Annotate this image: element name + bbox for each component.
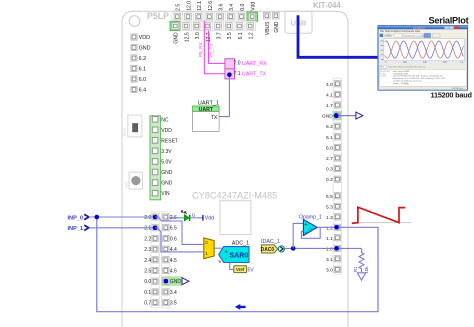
svg-text:UART_RX: UART_RX <box>242 61 267 67</box>
svg-text:3.3V: 3.3V <box>161 149 172 155</box>
top header pin 3.7 (row2 col5) <box>213 21 224 39</box>
svg-text:1.2: 1.2 <box>249 32 255 39</box>
terminal INP_0 <box>68 214 89 221</box>
wire P5_TX (magenta) <box>209 31 225 64</box>
GND row green highlight <box>162 276 183 285</box>
svg-text:2.0: 2.0 <box>144 215 151 221</box>
svg-text:[ info ]: [ info ] <box>381 76 387 78</box>
header pin 2.5 (left col) <box>144 267 158 274</box>
svg-text:3.1: 3.1 <box>326 257 333 263</box>
wire pin 2.0 to mux in0 <box>155 217 204 244</box>
right header pin 3.0 <box>326 266 341 273</box>
svg-text:6.1: 6.1 <box>326 135 333 141</box>
svg-text:3.0: 3.0 <box>195 32 201 39</box>
terminal INP_1 <box>68 225 89 232</box>
svg-text:-: - <box>225 256 227 262</box>
svg-text:GND: GND <box>161 170 173 176</box>
header pin 2.6 (right col) <box>163 214 177 221</box>
signal direction arrow (left) <box>235 304 246 310</box>
wire pin 2.6 to LED <box>169 217 185 219</box>
wire right GND <box>337 115 356 117</box>
svg-text:File Help Graphics Commands: File Help Graphics Commands View <box>380 30 420 33</box>
opamp feedback wire <box>301 227 320 238</box>
strip pin RESET <box>152 138 178 145</box>
svg-text:6.2: 6.2 <box>139 56 147 62</box>
sawtooth baseline <box>352 222 412 224</box>
push button SW <box>124 172 142 189</box>
svg-text:P5_TX: P5_TX <box>209 43 214 57</box>
svg-text:1.2: 1.2 <box>326 225 333 231</box>
pin GND (top single) <box>273 12 281 32</box>
op-amp U0 <box>303 219 317 235</box>
junction right GND pin <box>334 113 339 118</box>
svg-text:5.3: 5.3 <box>326 204 333 210</box>
svg-text:Vdd: Vdd <box>205 216 214 222</box>
svg-text:VDD: VDD <box>139 35 150 41</box>
header pin 0.7 (left col) <box>144 300 158 307</box>
right header column outline <box>333 78 341 274</box>
svg-text:6.1: 6.1 <box>139 67 147 73</box>
top header pin Vdd (row1 col8) <box>247 2 258 22</box>
svg-text:2.3: 2.3 <box>144 247 151 253</box>
right header pin 0.3 <box>326 166 341 173</box>
svg-text:S05: S05 <box>124 182 128 188</box>
UART_1 component <box>193 101 220 132</box>
svg-text:2.4: 2.4 <box>144 258 151 264</box>
svg-text:NC: NC <box>161 117 169 123</box>
header pin 0.1 (left col) <box>144 289 158 296</box>
junction pin 1.2 <box>334 225 339 230</box>
header column outlines <box>151 212 159 308</box>
svg-text:GND: GND <box>274 21 280 33</box>
strip pin VDD <box>152 127 172 134</box>
wire DAC node to opamp plus <box>293 223 303 248</box>
strip pin NC <box>152 117 169 124</box>
svg-text:SAR0: SAR0 <box>229 251 248 260</box>
svg-text:1: 1 <box>205 251 208 257</box>
wire SAR0 vminus to Vref <box>230 263 234 270</box>
header pin 2.2 (left col) <box>144 235 158 242</box>
svg-text:0.0: 0.0 <box>240 4 246 11</box>
svg-text:12.5: 12.5 <box>184 32 190 42</box>
wire opamp out to pin 1.2 <box>317 226 336 228</box>
svg-text:5V: 5V <box>248 267 255 273</box>
svg-text:0.3: 0.3 <box>326 167 333 173</box>
right header pin 6.1 <box>326 134 341 141</box>
svg-text:0.0: 0.0 <box>144 279 151 285</box>
right header pin 4.0 <box>326 81 341 88</box>
header pin 3.4 (right col) <box>163 289 177 296</box>
svg-text:6.0: 6.0 <box>326 145 333 151</box>
right header pin 1.1 <box>326 235 341 242</box>
svg-text:3.4: 3.4 <box>170 290 177 296</box>
svg-text:6.0: 6.0 <box>139 77 147 83</box>
svg-text:0: 0 <box>205 240 208 246</box>
header pin 2.1 (left col) <box>144 225 158 232</box>
left pin GND <box>131 44 151 51</box>
strip pin GND <box>152 169 173 176</box>
svg-text:INP_0: INP_0 <box>68 215 84 221</box>
right GND row green highlight <box>333 111 343 120</box>
pin VBUS (top single) <box>264 12 272 35</box>
header pin 0.6 (right col) <box>163 235 177 242</box>
top header pin 12.1 (row1 col3) <box>193 1 204 22</box>
svg-text:Vref: Vref <box>236 267 245 272</box>
DAC0 output terminal <box>278 246 284 252</box>
svg-text:UART_TX: UART_TX <box>242 71 267 77</box>
svg-text:3.5: 3.5 <box>227 32 233 39</box>
svg-text:KIT-044: KIT-044 <box>313 1 341 10</box>
svg-text:GND: GND <box>161 181 173 187</box>
svg-text:GND: GND <box>170 279 182 285</box>
right header pin 2.7 <box>326 155 341 162</box>
svg-text:3.6: 3.6 <box>219 4 225 11</box>
header pin 4.4 (right col) <box>163 246 177 253</box>
wire LED to Vdd <box>190 217 203 219</box>
svg-text:VIN: VIN <box>161 191 170 197</box>
header pin 3.5 (right col) <box>163 300 177 307</box>
right header pin 1.0 <box>326 245 341 252</box>
top header pin 12.7 (row2 col4) <box>202 21 213 42</box>
svg-text:P5LP: P5LP <box>147 11 169 21</box>
right header pin 6.2 <box>326 123 341 130</box>
junction pin 2.1 <box>153 226 158 231</box>
svg-text:1.1: 1.1 <box>326 236 333 242</box>
svg-text:GND: GND <box>139 46 151 52</box>
svg-text:INP_1: INP_1 <box>68 226 84 232</box>
reset switch SW <box>123 115 142 137</box>
right header pin 4.1 <box>326 91 341 98</box>
USB connector <box>285 11 312 33</box>
svg-text:CY8C4247AZI-M485: CY8C4247AZI-M485 <box>192 191 277 201</box>
header pin 2.0 (left col) <box>144 214 158 221</box>
svg-text:4.1: 4.1 <box>326 92 333 98</box>
wire INP_0 to pin 2.0 <box>89 216 155 218</box>
svg-text:1.0: 1.0 <box>326 246 333 252</box>
sawtooth waveform (red) <box>352 207 406 223</box>
LED D1 green <box>181 211 190 221</box>
off-sheet connector GND (right) <box>356 112 363 119</box>
wire P5_RX (magenta) <box>204 21 225 74</box>
DAC0 component <box>261 245 278 253</box>
UART pin box 7.0/7.1 <box>225 59 235 79</box>
svg-text:6.1: 6.1 <box>238 32 244 39</box>
top header pin 1.2 (row2 col8) <box>245 21 256 39</box>
header pin 2.3 (left col) <box>144 246 158 253</box>
junction pin 1.0 <box>334 246 339 251</box>
svg-text:2.7: 2.7 <box>326 156 333 162</box>
svg-text:3.4: 3.4 <box>229 4 235 11</box>
svg-text:ADC_1: ADC_1 <box>232 241 249 247</box>
top header pin 12.6 (row1 col4) <box>204 1 215 22</box>
svg-text:4.6: 4.6 <box>170 269 177 275</box>
header pin 2.4 (left col) <box>144 257 158 264</box>
junction DAC node <box>291 246 296 251</box>
svg-text:U0: U0 <box>308 226 314 231</box>
power header strip <box>150 116 161 200</box>
svg-text:7.1: 7.1 <box>234 71 241 77</box>
svg-text:6.4: 6.4 <box>139 88 147 94</box>
board outline KIT-044 <box>122 11 348 327</box>
svg-text:1.3: 1.3 <box>326 215 333 221</box>
svg-text:5.5: 5.5 <box>326 194 333 200</box>
svg-text:12.1: 12.1 <box>197 1 203 11</box>
resistor R1 10k <box>353 248 369 273</box>
left pin 6.0 <box>131 76 146 83</box>
top header pin 3.4 (row1 col6) <box>226 4 237 22</box>
svg-text:0.7: 0.7 <box>144 301 151 307</box>
Vref box <box>234 266 247 273</box>
junction on pin 7.1 <box>227 72 232 77</box>
top header pin GND (row2 col1) <box>170 21 181 43</box>
right header pin GND <box>322 113 341 120</box>
svg-text:2.5: 2.5 <box>144 269 151 275</box>
svg-text:6.5: 6.5 <box>170 226 177 232</box>
svg-text:R1: R1 <box>353 266 358 272</box>
right header pin 1.3 <box>326 214 341 221</box>
svg-text:4.5: 4.5 <box>170 258 177 264</box>
header pin 0.0 (left col) <box>144 278 158 285</box>
svg-text:GND: GND <box>174 32 180 44</box>
top header pin 3.0 (row2 col3) <box>191 21 202 39</box>
strip pin 3.3V <box>152 148 172 155</box>
header pin 6.5 (right col) <box>163 225 177 232</box>
svg-text:Vdd: Vdd <box>251 2 257 11</box>
wire DAC0 to R1 (net VDAC) <box>285 247 362 249</box>
svg-text:3.0: 3.0 <box>326 267 333 273</box>
right header pin 1.2 <box>326 224 341 231</box>
SerialPlot window screenshot <box>378 26 468 90</box>
svg-text:RESET: RESET <box>161 138 178 144</box>
top header pin 3.5 (row2 col6) <box>224 21 235 39</box>
junction INP_0 loop <box>95 215 100 220</box>
svg-text:+: + <box>304 222 307 228</box>
svg-text:12.6: 12.6 <box>208 1 214 11</box>
top header pin 3.6 (row1 col5) <box>215 4 226 22</box>
USB link wire (thick) <box>298 15 378 57</box>
svg-text:3.5: 3.5 <box>170 301 177 307</box>
right header pin 6.0 <box>326 144 341 151</box>
top header pin 6.1 (row2 col7) <box>234 21 245 39</box>
svg-text:12.0: 12.0 <box>186 1 192 11</box>
svg-text:Com Port Plot Commands R: Com Port Plot Commands Record Log <box>388 66 426 69</box>
wire pin 2.1 to mux in1 <box>155 228 204 252</box>
left pin 6.2 <box>131 55 146 62</box>
svg-text:IDAC_1: IDAC_1 <box>261 239 280 245</box>
left pin VDD <box>131 34 150 41</box>
ground (analog) <box>357 273 365 280</box>
svg-text:VDD: VDD <box>161 128 172 134</box>
SAR0 ADC pentagon <box>217 247 249 265</box>
svg-text:4.0: 4.0 <box>326 82 333 88</box>
right header pin 5.5 <box>326 193 341 200</box>
junction pin 2.0 <box>153 215 158 220</box>
right header pin 5.3 <box>326 203 341 210</box>
svg-text:Opamp_1: Opamp_1 <box>299 214 322 220</box>
mounting hole <box>129 16 140 27</box>
svg-text:115200 baud: 115200 baud <box>431 91 472 100</box>
svg-text:3.7: 3.7 <box>217 32 223 39</box>
power terminal Vdd <box>203 215 214 222</box>
strip pin 5.0V <box>152 159 172 166</box>
svg-text:GND: GND <box>322 114 333 120</box>
left pin 6.4 <box>131 86 146 93</box>
top header pin 0.0 (row1 col7) <box>236 4 247 22</box>
header pin 4.5 (right col) <box>163 257 177 264</box>
svg-text:TX: TX <box>211 115 218 121</box>
header pin 4.6 (right col) <box>163 267 177 274</box>
right header pin 0.2 <box>326 176 341 183</box>
svg-text:2.1: 2.1 <box>144 226 151 232</box>
svg-text:SerialPlot: SerialPlot <box>429 16 469 26</box>
svg-text:+: + <box>225 249 228 255</box>
svg-text:7.0: 7.0 <box>234 60 241 66</box>
svg-text:6.2: 6.2 <box>326 124 333 130</box>
top header pin 2.5 (row1 col1) <box>172 4 183 22</box>
svg-text:1.7: 1.7 <box>326 103 333 109</box>
header pin GND (right col) <box>163 278 182 285</box>
svg-text:0.6: 0.6 <box>170 236 177 242</box>
svg-text:0.2: 0.2 <box>326 177 333 183</box>
svg-text:0.1: 0.1 <box>144 290 151 296</box>
svg-text:Plot: Plot <box>380 66 384 69</box>
top header pin 12.5 (row2 col2) <box>181 21 192 42</box>
svg-text:2.2: 2.2 <box>144 236 151 242</box>
junction bottom GND pin <box>164 279 169 284</box>
wire INP_1 to pin 2.1 <box>89 227 155 229</box>
svg-text:5.0V: 5.0V <box>161 160 172 166</box>
wire mux out to SAR0 <box>214 247 223 249</box>
svg-text:2.5: 2.5 <box>176 4 182 11</box>
strip pin GND <box>152 180 173 187</box>
right header pin 3.1 <box>326 256 341 263</box>
wire UART TX to pin 7.1 <box>219 75 229 117</box>
svg-text:P5_RX: P5_RX <box>198 42 203 57</box>
svg-text:VBUS: VBUS <box>265 21 271 35</box>
svg-text:RST1: RST1 <box>123 127 127 136</box>
left pin 6.1 <box>131 65 146 72</box>
svg-text:DAC0: DAC0 <box>261 247 275 253</box>
MCU chip outline <box>220 201 251 235</box>
right header pin 1.7 <box>326 102 341 109</box>
analog mux AMux <box>204 238 214 259</box>
off-sheet connector GND (bottom) <box>182 278 189 285</box>
feedback loop wire (opamp out to INP_0) <box>97 217 378 312</box>
strip pin VIN <box>152 190 170 197</box>
svg-text:COM3: COM3 <box>385 35 393 38</box>
top header pin 12.0 (row1 col2) <box>183 1 194 22</box>
